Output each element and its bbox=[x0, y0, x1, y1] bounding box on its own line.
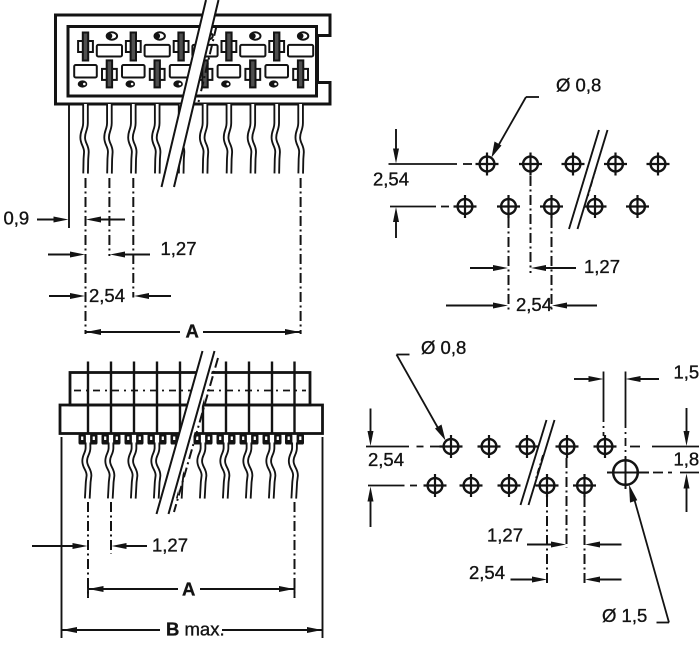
svg-text:2,54: 2,54 bbox=[89, 285, 125, 306]
svg-text:A: A bbox=[182, 579, 195, 600]
solder hole bottom row 2 (pattern 2) bbox=[460, 474, 483, 497]
svg-text:1,5: 1,5 bbox=[674, 362, 700, 383]
svg-text:1,27: 1,27 bbox=[152, 535, 188, 556]
centerline pin 2 bbox=[108, 178, 110, 256]
svg-text:2,54: 2,54 bbox=[368, 449, 404, 470]
dimension A (pin span, front view) bbox=[88, 579, 295, 600]
break lines through J1 front view bbox=[157, 351, 219, 514]
dimension 0,9 bbox=[4, 208, 126, 229]
connector J1 solder pins (top view) bbox=[83, 104, 302, 175]
centerline pin 10 bbox=[300, 178, 302, 334]
solder hole top row 5 (pattern 2) bbox=[594, 435, 617, 458]
svg-text:Ø 0,8: Ø 0,8 bbox=[556, 75, 601, 96]
svg-text:1,27: 1,27 bbox=[487, 525, 523, 546]
centerline pin 2 (front view) bbox=[110, 502, 112, 554]
solder hole top row 4 (pattern 1) bbox=[604, 153, 627, 176]
solder hole bottom row 3 (pattern 1) bbox=[540, 195, 563, 218]
solder hole top row 3 (pattern 1) bbox=[562, 153, 585, 176]
row centerline extensions (pattern 2) bbox=[366, 447, 440, 486]
solder hole bottom row 5 (pattern 1) bbox=[626, 195, 649, 218]
svg-text:B max.: B max. bbox=[166, 619, 225, 640]
extension line big hole column bbox=[625, 372, 627, 421]
dimension 1,27 (pattern 2) bbox=[487, 525, 622, 548]
solder hole bottom row 1 (pattern 2) bbox=[424, 474, 447, 497]
connector J1 upper housing (front view) bbox=[70, 373, 310, 406]
dimension 1,8 (pattern 2) bbox=[630, 408, 699, 512]
connector J1 inner cavity (top view) bbox=[68, 27, 317, 97]
svg-text:2,54: 2,54 bbox=[516, 294, 552, 315]
svg-text:Ø 1,5: Ø 1,5 bbox=[602, 605, 647, 626]
connector J1 contact stubs (front view) bbox=[88, 362, 295, 434]
dimension 2,54 vertical (pattern 1) bbox=[373, 129, 409, 238]
extension line hole col 5 top bbox=[603, 372, 605, 415]
solder hole top row 4 (pattern 2) bbox=[556, 435, 579, 458]
svg-text:2,54: 2,54 bbox=[469, 562, 505, 583]
dimension 1,27 (pattern 1) bbox=[470, 256, 620, 277]
solder hole bottom row 4 (pattern 1) bbox=[584, 195, 607, 218]
connector J1 solder pins (front view) bbox=[85, 443, 296, 501]
centerline pin 3 bbox=[132, 178, 134, 298]
mounting feet row bbox=[79, 434, 305, 445]
extension line base right bbox=[322, 437, 324, 638]
svg-text:1,27: 1,27 bbox=[161, 238, 197, 259]
svg-text:A: A bbox=[186, 321, 199, 342]
solder hole top row 2 (pattern 1) bbox=[519, 153, 542, 176]
dimension 2,54 (pattern 1) bbox=[446, 294, 597, 315]
solder hole bottom row 5 (pattern 2) bbox=[573, 474, 596, 497]
dimension 2,54 vertical (pattern 2) bbox=[368, 409, 405, 528]
centerlines (pattern 2 lower dims) bbox=[566, 458, 568, 548]
housing centerline bbox=[74, 390, 306, 392]
dimension 1,5 (pattern 2) bbox=[574, 362, 699, 383]
solder hole top row 2 (pattern 2) bbox=[478, 435, 501, 458]
svg-text:Ø 0,8: Ø 0,8 bbox=[421, 337, 466, 358]
row centerline extensions (pattern 1) bbox=[389, 164, 473, 207]
centerline hole col (pattern 1) bbox=[530, 176, 532, 273]
solder hole bottom row 4 (pattern 2) bbox=[536, 474, 559, 497]
connector J1 base flange (front view) bbox=[60, 405, 323, 434]
dimension B max. (overall width) bbox=[62, 619, 322, 640]
solder hole top row 1 (pattern 2) bbox=[440, 435, 463, 458]
svg-text:2,54: 2,54 bbox=[373, 169, 409, 190]
leader Ø 0,8 (pattern 1) bbox=[492, 75, 602, 158]
dimension 1,27 (pin pitch stagger, J1) bbox=[48, 238, 197, 259]
break lines through pattern 2 bbox=[521, 420, 555, 505]
solder hole top row 3 (pattern 2) bbox=[516, 435, 539, 458]
svg-text:1,8: 1,8 bbox=[674, 449, 700, 470]
solder hole top row 1 (pattern 1) bbox=[476, 153, 499, 176]
dimension 1,27 (pin pitch stagger, front view) bbox=[32, 535, 188, 556]
break lines through pattern 1 bbox=[569, 130, 608, 229]
leader Ø 1,5 (pattern 2) bbox=[602, 485, 669, 627]
dimension A (J1 pin span) bbox=[86, 321, 300, 342]
solder hole bottom row 2 (pattern 1) bbox=[497, 195, 520, 218]
break lines through J1 (shortened view) bbox=[162, 0, 219, 187]
centerline pin 10 (front view) bbox=[294, 502, 296, 598]
solder hole top row 5 (pattern 1) bbox=[647, 153, 670, 176]
connector J1 body outline (top view) bbox=[56, 15, 331, 104]
leader Ø 0,8 (pattern 2) bbox=[397, 337, 467, 441]
centerline pin 1 bbox=[85, 178, 87, 334]
large hole Ø 1,5 (pattern 2) bbox=[607, 457, 649, 489]
centerline pin 1 (front view) bbox=[87, 502, 89, 598]
svg-text:0,9: 0,9 bbox=[4, 208, 30, 229]
svg-text:1,27: 1,27 bbox=[584, 256, 620, 277]
solder hole bottom row 1 (pattern 1) bbox=[454, 195, 477, 218]
extension line body cavity left wall bbox=[68, 105, 70, 228]
dimension 2,54 (pattern 2) bbox=[469, 562, 622, 583]
extension line base left bbox=[61, 437, 63, 638]
contact pattern inside cavity bbox=[74, 32, 313, 87]
solder hole bottom row 3 (pattern 2) bbox=[498, 474, 521, 497]
dimension 2,54 (row pitch, J1) bbox=[49, 285, 171, 306]
